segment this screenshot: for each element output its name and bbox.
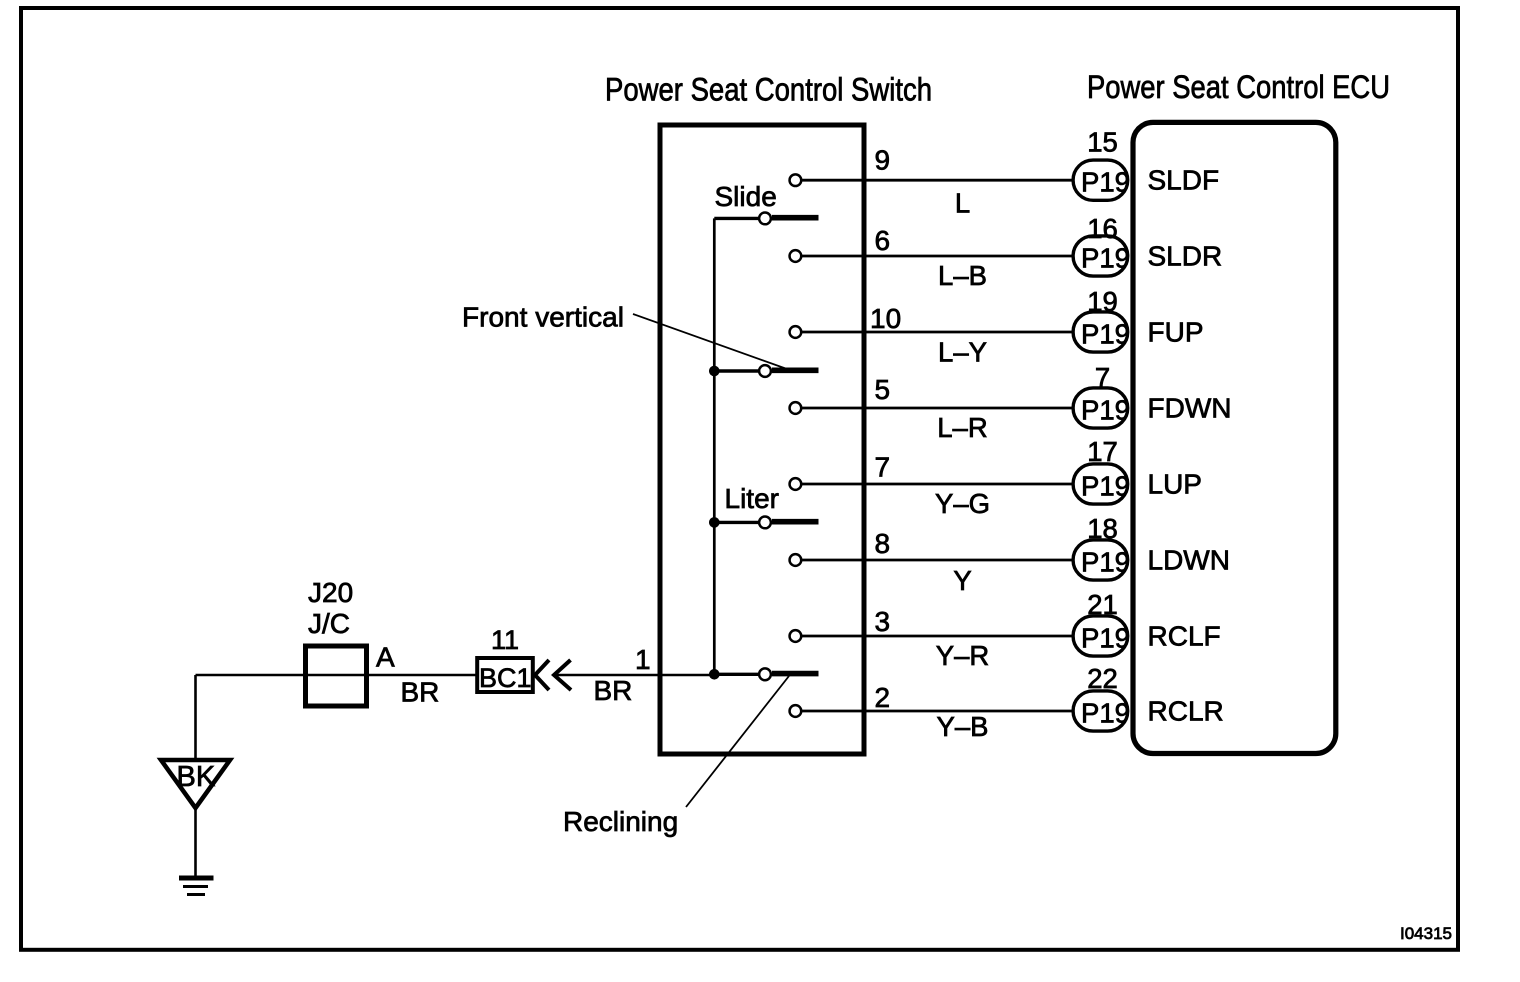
in-line connector chevron 1 [535,660,549,690]
Reclining switch contact bar [772,671,819,677]
terminal circle, switch pin 3 [790,630,802,642]
connector P19 (row 1) [1073,160,1130,200]
svg-text:L–R: L–R [937,412,987,443]
svg-text:11: 11 [491,625,519,655]
power seat control switch body [660,125,864,754]
junction dot (Front vertical common) [709,366,720,377]
svg-text:Y–G: Y–G [935,488,990,519]
connector P19 (row 3) [1073,312,1130,352]
svg-text:LUP: LUP [1148,469,1202,500]
wire: drop to ground [194,675,197,758]
Front vertical switch contact arm wire [714,369,758,372]
connector P19 (row 2) [1073,236,1130,276]
ground symbol [179,878,214,895]
junction dot (Reclining common) [709,669,720,680]
wire: triangle to ground [194,808,197,876]
wire row 6: switch pin 8 to ECU LDWN [802,559,1074,562]
svg-text:7: 7 [875,452,891,483]
wire row 4: switch pin 5 to ECU FDWN [802,407,1074,410]
svg-text:FUP: FUP [1148,317,1204,348]
connector BC1 box [477,658,533,693]
Reclining switch contact circle [759,668,771,680]
connector P19 (row 6) [1073,540,1130,580]
svg-text:Y–R: Y–R [936,640,990,671]
svg-text:Reclining: Reclining [563,806,678,837]
svg-text:3: 3 [875,606,891,637]
svg-text:Slide: Slide [715,181,777,212]
svg-text:J20: J20 [308,577,353,608]
svg-text:L–B: L–B [938,260,987,291]
svg-text:SLDR: SLDR [1148,241,1223,272]
svg-text:17: 17 [1087,436,1118,467]
svg-text:P19: P19 [1081,471,1130,502]
junction connector J20 J/C box [306,646,367,706]
Liter switch contact arm wire [714,521,758,524]
bus wire (switch common) [713,218,716,674]
wire row 8: switch pin 2 to ECU RCLR [802,710,1074,713]
wire row 2: switch pin 6 to ECU SLDR [802,255,1074,258]
svg-text:P19: P19 [1081,319,1130,350]
connector P19 (row 4) [1073,388,1130,428]
leader line (Front vertical) [633,314,787,369]
leader line (Reclining) [686,676,789,807]
svg-text:8: 8 [875,528,891,559]
terminal circle, switch pin 10 [790,326,802,338]
svg-text:L–Y: L–Y [938,337,987,368]
svg-text:2: 2 [875,682,891,713]
svg-text:J/C: J/C [308,608,350,639]
wire row 3: switch pin 10 to ECU FUP [802,331,1074,334]
svg-text:6: 6 [875,225,891,256]
connector P19 (row 5) [1073,464,1130,504]
svg-text:P19: P19 [1081,395,1130,426]
Front vertical switch contact bar [772,367,819,373]
ground wire triangle BK [161,760,230,808]
svg-text:15: 15 [1087,127,1118,158]
svg-text:16: 16 [1087,213,1118,244]
svg-text:P19: P19 [1081,623,1130,654]
connector P19 (row 8) [1073,691,1130,731]
svg-text:Y: Y [953,565,971,596]
svg-text:BR: BR [401,677,440,708]
svg-text:5: 5 [875,374,891,405]
svg-text:L: L [955,188,970,219]
junction dot (Liter common) [709,517,720,528]
svg-text:FDWN: FDWN [1148,393,1232,424]
svg-text:Front vertical: Front vertical [462,302,624,333]
svg-text:Liter: Liter [725,483,779,514]
svg-text:I04315: I04315 [1400,924,1452,943]
svg-text:BR: BR [594,675,633,706]
Liter switch contact bar [772,519,819,525]
Slide switch contact circle [759,213,771,225]
svg-text:Power Seat Control ECU: Power Seat Control ECU [1087,69,1390,105]
svg-text:Power Seat Control Switch: Power Seat Control Switch [605,72,932,108]
terminal circle, switch pin 2 [790,705,802,717]
terminal circle, switch pin 9 [790,174,802,186]
svg-text:BK: BK [177,761,216,793]
terminal circle, switch pin 6 [790,250,802,262]
svg-text:P19: P19 [1081,698,1130,729]
svg-text:SLDF: SLDF [1148,165,1220,196]
wire row 7: switch pin 3 to ECU RCLF [802,635,1074,638]
svg-text:19: 19 [1087,286,1118,317]
svg-text:A: A [376,642,395,673]
terminal circle, switch pin 5 [790,402,802,414]
svg-text:21: 21 [1087,589,1118,620]
svg-text:18: 18 [1087,513,1118,544]
svg-text:P19: P19 [1081,547,1130,578]
svg-text:P19: P19 [1081,167,1130,198]
svg-text:22: 22 [1087,663,1118,694]
svg-text:P19: P19 [1081,243,1130,274]
Reclining switch contact arm wire [714,673,758,676]
svg-text:LDWN: LDWN [1148,545,1230,576]
svg-text:10: 10 [870,303,901,334]
svg-text:1: 1 [635,644,651,675]
power seat control ECU body [1133,122,1336,753]
svg-text:BC1: BC1 [479,663,532,693]
svg-text:9: 9 [875,145,891,176]
terminal circle, switch pin 7 [790,478,802,490]
Liter switch contact circle [759,517,771,529]
Front vertical switch contact circle [759,365,771,377]
svg-text:RCLR: RCLR [1148,696,1224,727]
wire row 5: switch pin 7 to ECU LUP [802,483,1074,486]
wire: chevrons to switch pin 1 (BR) [555,674,715,677]
Slide switch contact arm wire [714,217,758,220]
terminal circle, switch pin 8 [790,554,802,566]
connector P19 (row 7) [1073,616,1130,656]
svg-text:RCLF: RCLF [1148,621,1221,652]
svg-text:Y–B: Y–B [937,711,989,742]
Slide switch contact bar [772,215,819,221]
wire row 1: switch pin 9 to ECU SLDF [802,179,1074,182]
svg-text:7: 7 [1095,362,1110,393]
in-line connector chevron 2 [554,660,571,690]
wire: ground to BC1 (BR) [196,674,478,677]
